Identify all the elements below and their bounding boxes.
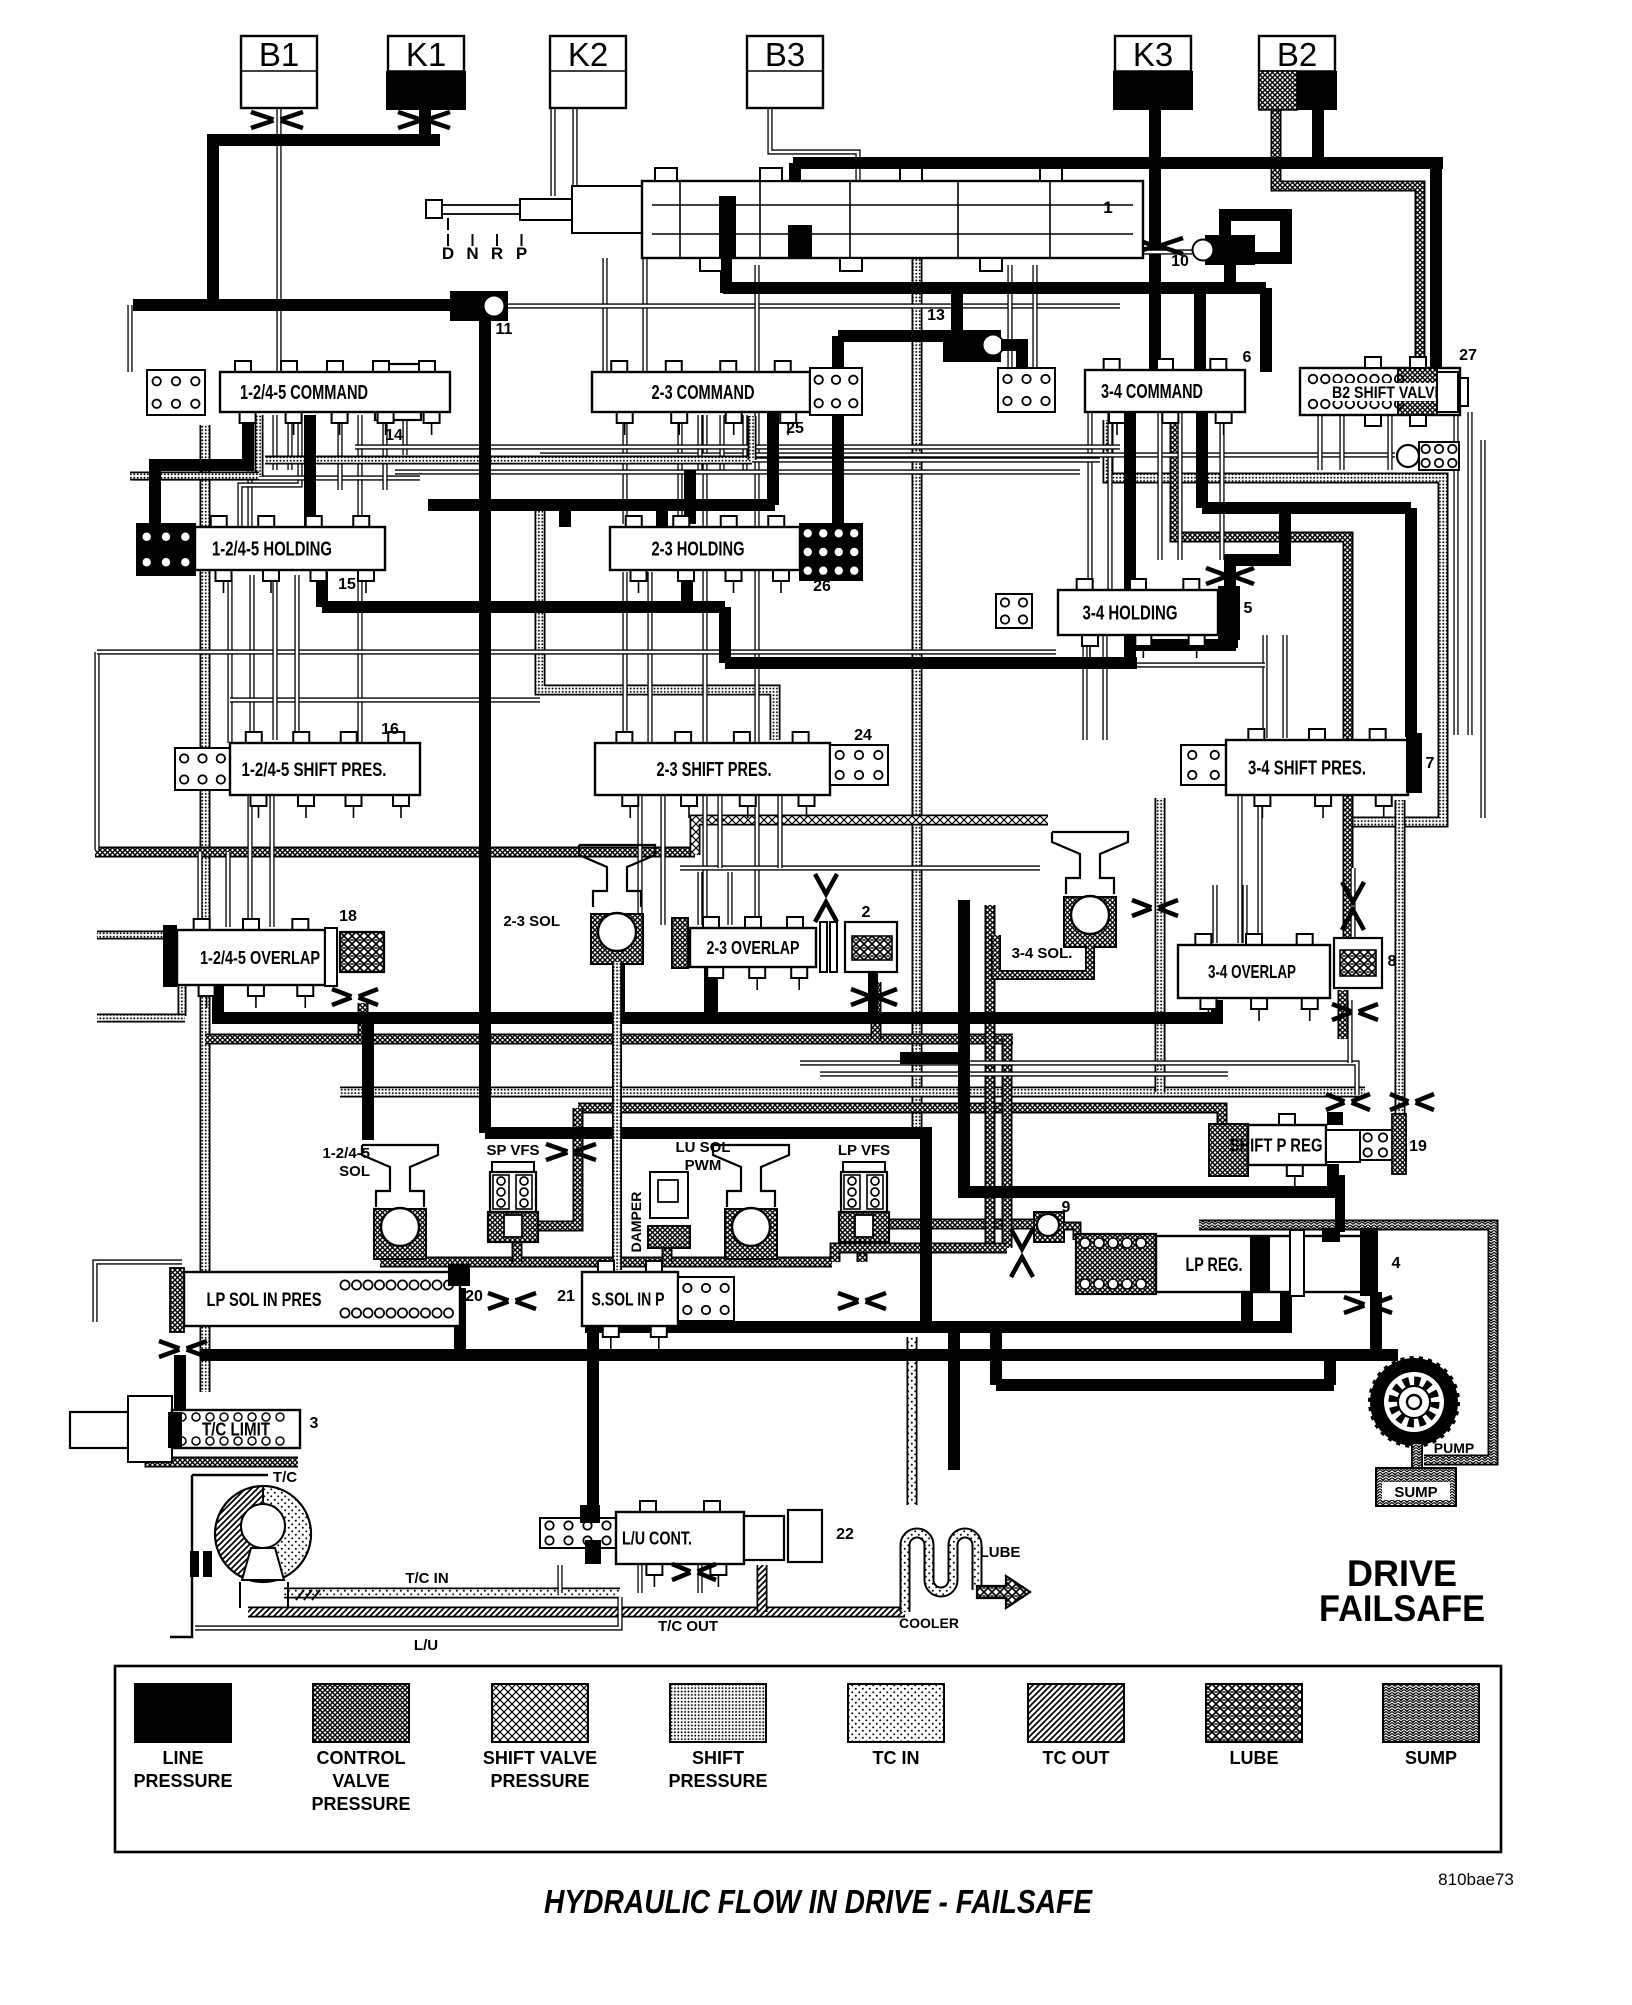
svg-text:2-3 OVERLAP: 2-3 OVERLAP xyxy=(707,938,800,958)
svg-text:FAILSAFE: FAILSAFE xyxy=(1319,1588,1485,1629)
svg-text:T/C: T/C xyxy=(273,1469,297,1486)
svg-text:LUBE: LUBE xyxy=(1230,1748,1279,1768)
svg-text:PRESSURE: PRESSURE xyxy=(133,1771,232,1791)
svg-text:K3: K3 xyxy=(1133,36,1173,73)
svg-text:LINE: LINE xyxy=(162,1748,203,1768)
svg-text:DAMPER: DAMPER xyxy=(628,1192,644,1253)
svg-text:26: 26 xyxy=(813,578,831,595)
svg-text:LUBE: LUBE xyxy=(980,1544,1021,1561)
svg-text:LU SOL: LU SOL xyxy=(676,1139,731,1156)
svg-text:VALVE: VALVE xyxy=(332,1771,389,1791)
svg-text:2-3 SHIFT PRES.: 2-3 SHIFT PRES. xyxy=(657,759,772,781)
svg-text:LP SOL IN PRES: LP SOL IN PRES xyxy=(207,1290,322,1311)
svg-text:16: 16 xyxy=(381,721,399,738)
svg-text:K1: K1 xyxy=(406,36,446,73)
svg-text:2-3 COMMAND: 2-3 COMMAND xyxy=(652,382,755,404)
svg-text:2-3 SOL: 2-3 SOL xyxy=(503,913,560,930)
svg-text:SOL: SOL xyxy=(339,1163,370,1180)
svg-text:20: 20 xyxy=(465,1288,483,1305)
svg-text:1-2/4-5 HOLDING: 1-2/4-5 HOLDING xyxy=(212,539,332,561)
svg-text:1-2/4-5 COMMAND: 1-2/4-5 COMMAND xyxy=(240,382,368,404)
svg-text:K2: K2 xyxy=(568,36,608,73)
svg-text:HYDRAULIC FLOW IN DRIVE - FAIL: HYDRAULIC FLOW IN DRIVE - FAILSAFE xyxy=(544,1883,1093,1920)
svg-text:SHIFT P REG: SHIFT P REG xyxy=(1230,1135,1323,1155)
svg-text:SHIFT VALVE: SHIFT VALVE xyxy=(483,1748,597,1768)
svg-text:5: 5 xyxy=(1244,600,1253,617)
svg-text:2: 2 xyxy=(862,904,871,921)
svg-text:10: 10 xyxy=(1171,253,1189,270)
svg-text:9: 9 xyxy=(1062,1199,1071,1216)
svg-text:PRESSURE: PRESSURE xyxy=(668,1771,767,1791)
svg-text:25: 25 xyxy=(786,420,804,437)
svg-text:27: 27 xyxy=(1459,347,1477,364)
svg-text:13: 13 xyxy=(927,307,945,324)
svg-text:B1: B1 xyxy=(259,36,299,73)
svg-text:3-4 COMMAND: 3-4 COMMAND xyxy=(1101,381,1203,403)
svg-text:CONTROL: CONTROL xyxy=(317,1748,406,1768)
svg-text:LP VFS: LP VFS xyxy=(838,1142,890,1159)
svg-text:6: 6 xyxy=(1243,349,1252,366)
svg-text:24: 24 xyxy=(854,727,872,744)
svg-text:11: 11 xyxy=(496,321,513,338)
svg-text:TC OUT: TC OUT xyxy=(1043,1748,1110,1768)
svg-text:1-2/4-5 OVERLAP: 1-2/4-5 OVERLAP xyxy=(200,948,320,968)
svg-text:TC IN: TC IN xyxy=(873,1748,920,1768)
svg-text:SHIFT: SHIFT xyxy=(692,1748,744,1768)
svg-text:19: 19 xyxy=(1409,1138,1427,1155)
svg-text:T/C IN: T/C IN xyxy=(405,1570,448,1587)
svg-text:3-4 OVERLAP: 3-4 OVERLAP xyxy=(1208,962,1296,982)
svg-text:B2: B2 xyxy=(1277,36,1317,73)
svg-text:S.SOL IN P: S.SOL IN P xyxy=(592,1289,665,1309)
svg-text:P: P xyxy=(516,244,527,263)
svg-text:3-4 SHIFT PRES.: 3-4 SHIFT PRES. xyxy=(1248,758,1366,780)
svg-text:PUMP: PUMP xyxy=(1434,1440,1474,1456)
svg-text:LP REG.: LP REG. xyxy=(1186,1255,1243,1276)
svg-text:18: 18 xyxy=(339,908,357,925)
svg-text:SP VFS: SP VFS xyxy=(486,1142,539,1159)
svg-text:B2 SHIFT VALVE: B2 SHIFT VALVE xyxy=(1332,383,1444,402)
svg-text:14: 14 xyxy=(385,427,403,444)
svg-text:PRESSURE: PRESSURE xyxy=(490,1771,589,1791)
svg-text:1-2/4-5 SHIFT PRES.: 1-2/4-5 SHIFT PRES. xyxy=(242,760,387,781)
svg-text:T/C OUT: T/C OUT xyxy=(658,1618,718,1635)
svg-text:3: 3 xyxy=(310,1415,319,1432)
svg-text:D: D xyxy=(442,244,454,263)
svg-text:PWM: PWM xyxy=(685,1157,722,1174)
svg-text:PRESSURE: PRESSURE xyxy=(311,1794,410,1814)
svg-text:1: 1 xyxy=(1103,198,1112,217)
svg-text:SUMP: SUMP xyxy=(1405,1748,1457,1768)
svg-text:L/U: L/U xyxy=(414,1637,438,1654)
svg-text:8: 8 xyxy=(1388,953,1397,970)
svg-text:3-4 HOLDING: 3-4 HOLDING xyxy=(1083,603,1178,625)
svg-text:R: R xyxy=(491,244,503,263)
svg-text:SUMP: SUMP xyxy=(1394,1484,1437,1501)
svg-text:15: 15 xyxy=(338,576,356,593)
svg-text:810bae73: 810bae73 xyxy=(1438,1870,1514,1889)
svg-text:7: 7 xyxy=(1426,755,1435,772)
svg-text:21: 21 xyxy=(557,1288,575,1305)
svg-text:T/C LIMIT: T/C LIMIT xyxy=(202,1419,270,1439)
svg-text:2-3 HOLDING: 2-3 HOLDING xyxy=(652,539,745,561)
svg-text:COOLER: COOLER xyxy=(899,1615,959,1631)
svg-text:4: 4 xyxy=(1392,1255,1401,1272)
svg-text:22: 22 xyxy=(836,1526,854,1543)
svg-text:B3: B3 xyxy=(765,36,805,73)
svg-text:N: N xyxy=(466,244,478,263)
svg-text:L/U CONT.: L/U CONT. xyxy=(622,1528,692,1548)
